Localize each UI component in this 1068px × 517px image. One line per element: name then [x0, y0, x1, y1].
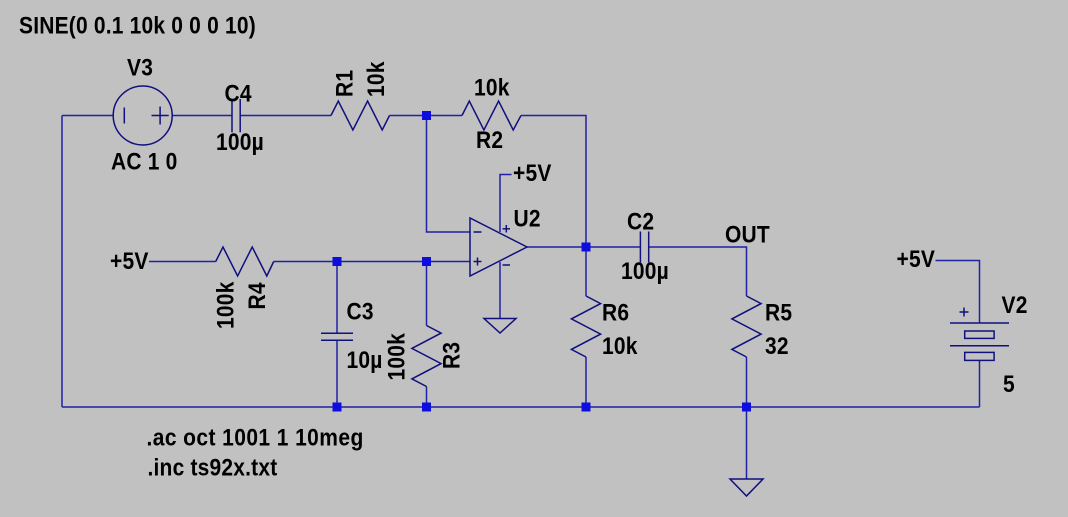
- wire C4 to R1: [240, 115, 331, 117]
- wire C2 to OUT node down to R5: [649, 247, 747, 296]
- svg-text:+5V: +5V: [513, 160, 552, 187]
- svg-text:R2: R2: [476, 127, 503, 154]
- wire left vertical bus: [61, 116, 63, 408]
- junction R6 bottom on bus: [582, 403, 591, 412]
- wire +5V to V2 battery top: [936, 261, 980, 324]
- svg-text:AC 1 0: AC 1 0: [111, 148, 178, 175]
- wire C3 bottom to bus: [336, 340, 338, 407]
- svg-text:SINE(0 0.1 10k 0 0 0 10): SINE(0 0.1 10k 0 0 0 10): [19, 12, 256, 39]
- battery V2: [950, 308, 1009, 361]
- capacitor C4: [232, 99, 240, 132]
- svg-text:R1: R1: [331, 70, 358, 97]
- junction C3 bottom on bus: [333, 403, 342, 412]
- junction R5/ground on bus: [742, 403, 751, 412]
- svg-text:OUT: OUT: [725, 221, 770, 248]
- svg-text:100µ: 100µ: [216, 129, 264, 156]
- wire node to R3 top: [426, 262, 428, 326]
- junction R3 bottom on bus: [422, 403, 431, 412]
- junction node R3/noninverting: [422, 257, 431, 266]
- svg-text:C2: C2: [627, 208, 654, 235]
- resistor R1: [331, 101, 390, 130]
- svg-text:+5V: +5V: [897, 246, 936, 273]
- wire output node to R6 top: [585, 247, 587, 296]
- svg-text:.inc ts92x.txt: .inc ts92x.txt: [148, 454, 278, 481]
- svg-text:C3: C3: [347, 298, 374, 325]
- svg-text:10k: 10k: [602, 333, 638, 360]
- svg-text:100µ: 100µ: [621, 258, 669, 285]
- resistor R3: [412, 326, 441, 387]
- svg-text:R3: R3: [438, 342, 465, 369]
- svg-text:.ac oct 1001 1 10meg: .ac oct 1001 1 10meg: [147, 424, 364, 451]
- wire R2 right to output node: [521, 116, 586, 248]
- svg-text:32: 32: [765, 333, 789, 360]
- svg-text:5: 5: [1003, 371, 1015, 398]
- svg-text:U2: U2: [514, 205, 541, 232]
- svg-text:R5: R5: [765, 299, 792, 326]
- wire bus to ground 2: [746, 407, 748, 479]
- wire V3 left lead: [62, 115, 113, 117]
- svg-text:C4: C4: [225, 80, 252, 107]
- wire R3 bottom to bus: [426, 387, 428, 408]
- wire V2 battery bottom to bus: [979, 361, 981, 408]
- svg-text:100k: 100k: [212, 281, 239, 329]
- svg-text:100k: 100k: [383, 333, 410, 381]
- junction node R4/C3: [333, 257, 342, 266]
- junction node R1/R2/inverting: [422, 111, 431, 120]
- wire +5V to R4: [149, 261, 216, 263]
- wire node to C3 top: [336, 262, 338, 334]
- svg-text:R4: R4: [244, 282, 271, 309]
- capacitor C2: [640, 232, 648, 263]
- wire bottom ground bus: [62, 406, 980, 408]
- svg-text:+5V: +5V: [110, 248, 149, 275]
- resistor R4: [216, 247, 274, 276]
- wire op-amp V+ supply: [500, 175, 512, 233]
- svg-text:10k: 10k: [474, 74, 510, 101]
- svg-text:V3: V3: [127, 54, 153, 81]
- resistor R2: [462, 101, 521, 130]
- svg-text:V2: V2: [1002, 292, 1028, 319]
- ground at OUT load: [730, 479, 763, 496]
- resistor R6: [571, 296, 600, 357]
- svg-text:10k: 10k: [363, 61, 390, 97]
- svg-text:R6: R6: [602, 299, 629, 326]
- wire R6 bottom to bus: [585, 357, 587, 407]
- wire junction down to inverting input: [427, 116, 471, 233]
- wire op-amp V- to ground: [499, 262, 501, 319]
- capacitor C3: [321, 333, 353, 340]
- wire R1 to R2 (node at junction): [390, 115, 463, 117]
- op-amp U2: [470, 218, 527, 276]
- wire op-amp output to C2: [527, 246, 640, 248]
- voltage source V3: [113, 86, 172, 145]
- wire R5 bottom to bus: [746, 357, 748, 407]
- svg-text:10µ: 10µ: [347, 347, 383, 374]
- wire R4 to noninverting input: [274, 261, 470, 263]
- junction node op-amp output: [582, 243, 591, 252]
- wire V3 to C4: [172, 115, 232, 117]
- resistor R5: [732, 296, 761, 357]
- ground below op-amp: [484, 319, 516, 334]
